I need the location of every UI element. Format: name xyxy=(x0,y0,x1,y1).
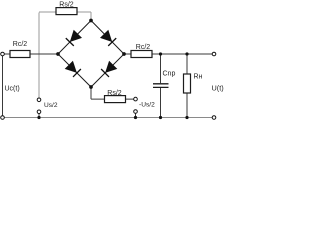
svg-text:Rн: Rн xyxy=(194,73,203,80)
svg-text:Rs/2: Rs/2 xyxy=(107,90,122,97)
svg-text:-Us/2: -Us/2 xyxy=(139,102,155,109)
svg-text:Rs/2: Rs/2 xyxy=(59,2,74,9)
svg-text:Rc/2: Rc/2 xyxy=(136,44,151,51)
svg-text:Cnp: Cnp xyxy=(163,70,176,77)
svg-text:Us/2: Us/2 xyxy=(44,102,58,109)
svg-text:U(t): U(t) xyxy=(212,83,224,92)
svg-text:Uc(t): Uc(t) xyxy=(5,86,20,93)
svg-text:Rc/2: Rc/2 xyxy=(13,41,28,48)
